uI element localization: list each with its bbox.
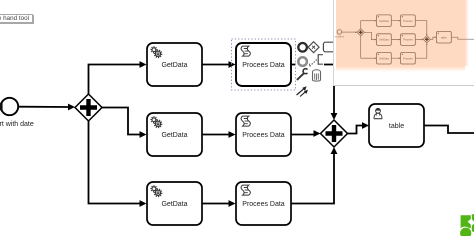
mini gateway G1 [357,29,364,36]
context pad: wrench (change type) icon [297,68,310,80]
svg-text:GetData: GetData [161,201,187,208]
task table (user task) [369,104,424,147]
arrowhead into bottom GetData [140,200,147,207]
context pad: append task icon (partly under minimap) [323,42,335,52]
wire G1 right to middle GetData [102,108,140,135]
wire G1 up to top GetData [89,65,141,95]
cut-off element at left edge [0,103,3,111]
context pad: text annotation icon [310,55,323,67]
wire G2 to table task [348,126,364,134]
task Procees Data (middle) [236,113,291,156]
arrowhead into G2 bottom [331,147,338,154]
context pad white cells hiding wire [296,55,309,68]
context pad: connect tool icon (double arrows) [297,86,308,96]
mini wire top Procees to G2 [415,21,426,35]
script icon (bottom Procees Data) [241,185,250,195]
wire bottom GetData to Procees Data [202,203,229,205]
service gears icon (top GetData) [151,47,162,58]
context pad: append end event icon [298,43,307,52]
gateway G1 (parallel, diverging) [75,94,102,121]
mini wire middle Procees to G2 [415,39,421,41]
minimap [333,0,474,86]
mini wire table off right [451,37,474,39]
svg-text:GetData: GetData [161,132,187,139]
task GetData (bottom) [147,182,202,225]
arrowhead into table task [362,122,369,129]
svg-text:rt with date: rt with date [0,121,34,128]
arrowhead into G1 [68,104,75,111]
mini task icons [378,16,439,55]
task Procees Data (bottom) [236,182,291,225]
wire middle GetData to Procees Data [202,134,229,136]
svg-text:Procees Data: Procees Data [242,201,285,208]
svg-text:GetData: GetData [161,62,187,69]
task Procees Data (top, selected) [236,43,291,86]
wire middle Procees Data to G2 [291,134,314,136]
gateway G2 (parallel, converging) [321,120,348,147]
context pad: trash icon [313,70,321,81]
svg-text:table: table [389,123,404,130]
arrowhead into top GetData [140,61,147,68]
bpmn.io logo (bottom right, cut off) [460,214,474,239]
wire bottom Procees Data right then up to G2 [291,154,334,204]
mini wire G1 to top row [361,20,375,22]
script icon (middle Procees Data) [241,116,250,126]
context pad: append intermediate event icon [298,57,307,66]
mini wire bottom Procees to G2 [415,45,426,59]
mini wire G1 vertical span [360,21,362,58]
arrowhead into bottom Procees Data [229,200,236,207]
start event [1,98,18,115]
mini arrowheads [355,20,436,59]
mini task labels [379,19,447,61]
wire top GetData to Procees Data [202,64,229,66]
mini task table [436,31,451,43]
wire start event to gateway G1 [19,106,70,108]
svg-text:Procees Data: Procees Data [242,132,285,139]
task GetData (middle) [147,113,202,156]
mini wire G2 to table [431,37,436,39]
tooltip "Activate the hand tool" cut off [0,14,33,23]
mini tasks Procees column [401,15,416,64]
mini wires GetData to Procees [391,21,399,58]
minimap viewport orange [336,0,465,66]
script icon (top Procees Data) [241,46,250,56]
mini gateway G2 [423,36,430,43]
mini wire G1 jog to middle row [364,32,375,39]
mini start event [337,30,342,35]
arrowhead into top Procees Data [229,61,236,68]
task GetData (top) [147,43,202,86]
mini tasks GetData column [377,15,392,64]
wire top Procees Data right then down to G2 [291,65,334,115]
service gears icon (middle GetData) [151,117,162,128]
mini wire start to G1 [342,31,357,33]
selection outline around top Procees Data [232,39,296,90]
mini wire G1 to bottom row [361,57,375,59]
user icon (table task) [374,108,383,118]
context pad: append gateway icon [308,42,319,53]
service gears icon (bottom GetData) [151,186,162,197]
wire table task off right edge [424,126,474,134]
arrowhead into G2 top [331,113,338,120]
svg-text:Procees Data: Procees Data [242,62,285,69]
wire G1 down to bottom GetData [89,121,141,204]
arrowhead into middle Procees Data [229,131,236,138]
arrowhead into G2 left [314,130,321,137]
arrowhead into middle GetData [140,131,147,138]
